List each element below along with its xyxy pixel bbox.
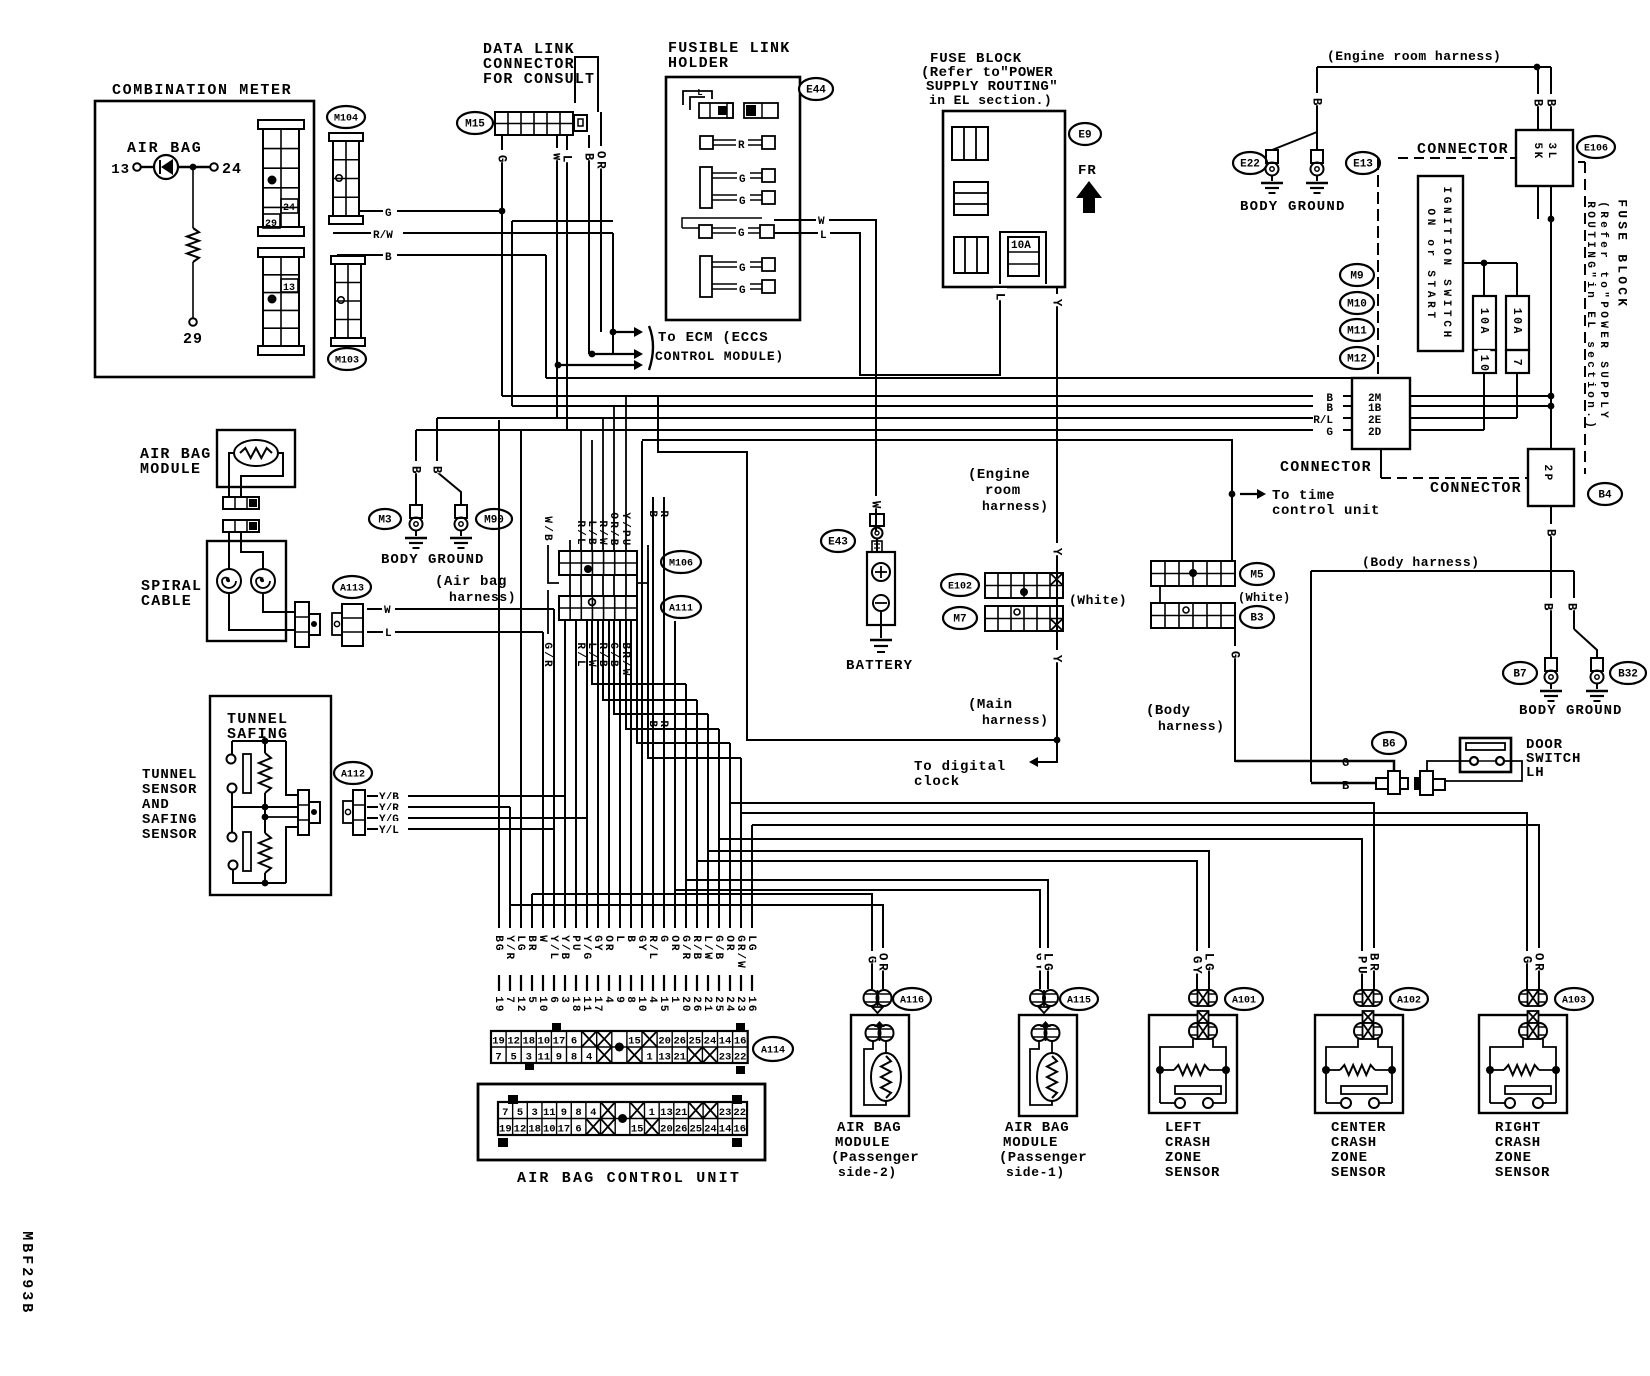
- svg-text:B: B: [1544, 529, 1558, 537]
- svg-text:B6: B6: [1382, 739, 1395, 751]
- svg-text:R/L: R/L: [1313, 415, 1333, 427]
- svg-text:A102: A102: [1397, 996, 1421, 1007]
- svg-text:B: B: [585, 538, 597, 545]
- svg-text:G: G: [1584, 261, 1596, 268]
- svg-text:BODY GROUND: BODY GROUND: [1519, 703, 1622, 719]
- svg-text:1: 1: [1477, 308, 1490, 315]
- connector A112: [334, 762, 372, 784]
- svg-text:T: T: [1424, 281, 1436, 288]
- svg-text:R: R: [1532, 963, 1546, 971]
- body ground M3: [369, 509, 401, 529]
- svg-text:O: O: [602, 935, 614, 942]
- svg-text:(Engine room harness): (Engine room harness): [1327, 49, 1501, 64]
- svg-text:S: S: [1440, 279, 1452, 286]
- svg-text:″: ″: [1597, 291, 1609, 298]
- svg-text:G: G: [591, 935, 603, 942]
- battery feed W: [869, 496, 883, 508]
- svg-text:9: 9: [613, 996, 625, 1003]
- svg-text:R: R: [594, 161, 608, 169]
- svg-text:G: G: [734, 935, 746, 942]
- svg-text:B: B: [1565, 603, 1579, 611]
- svg-text:(Passenger: (Passenger: [831, 1150, 919, 1166]
- wire bundle verticals: [498, 420, 500, 928]
- svg-text:1: 1: [580, 996, 592, 1003]
- svg-text:W: W: [1440, 289, 1452, 296]
- svg-text:L: L: [820, 230, 827, 242]
- wire B below M15: [588, 135, 590, 354]
- svg-text:SENSOR: SENSOR: [142, 827, 197, 843]
- svg-text:1: 1: [646, 1052, 652, 1064]
- wire L from fusible link to fuse block: [774, 233, 1000, 375]
- wire G row to A116: [532, 894, 872, 989]
- connector A114: [491, 1031, 748, 1063]
- svg-text:3: 3: [734, 1005, 746, 1012]
- wires below E106: [1537, 186, 1539, 219]
- svg-text:2D: 2D: [1368, 427, 1382, 439]
- svg-text:FOR CONSULT: FOR CONSULT: [483, 71, 595, 88]
- svg-text:O: O: [1615, 276, 1630, 284]
- svg-text:(Body harness): (Body harness): [1362, 555, 1480, 570]
- svg-text:18: 18: [528, 1124, 541, 1136]
- svg-text:I: I: [1440, 217, 1452, 224]
- svg-text:4: 4: [602, 996, 614, 1003]
- svg-text:R: R: [738, 140, 745, 152]
- svg-text:T: T: [1424, 311, 1436, 318]
- wire L below M15: [566, 135, 568, 430]
- wires Y/B Y/R Y/G Y/L from A112: [367, 795, 565, 797]
- svg-text:O: O: [1584, 211, 1596, 218]
- svg-text:12: 12: [507, 1036, 520, 1048]
- svg-text:P: P: [1597, 391, 1609, 398]
- svg-text:B7: B7: [1513, 669, 1526, 681]
- svg-text:I: I: [1584, 241, 1596, 248]
- svg-text:f: f: [1597, 231, 1609, 238]
- svg-text:B: B: [18, 1243, 35, 1252]
- svg-text:G: G: [1041, 963, 1055, 971]
- svg-text:P: P: [1355, 956, 1369, 964]
- tunnel sensor internals lower: [231, 807, 233, 832]
- svg-text:18: 18: [522, 1036, 535, 1048]
- svg-text:harness): harness): [982, 713, 1048, 728]
- svg-text:G: G: [1440, 197, 1452, 204]
- dashed link to 2P connector: [1381, 477, 1528, 479]
- svg-text:7: 7: [1510, 359, 1523, 366]
- svg-text:CONNECTOR: CONNECTOR: [1430, 480, 1522, 497]
- wire PU row to A102: [719, 839, 1362, 989]
- svg-text:RIGHT: RIGHT: [1495, 1120, 1541, 1136]
- svg-text:29: 29: [183, 331, 203, 348]
- svg-text:c: c: [1584, 361, 1596, 368]
- svg-text:R/W: R/W: [373, 230, 393, 242]
- door switch: [1460, 738, 1511, 772]
- svg-text:L: L: [1041, 953, 1055, 961]
- svg-text:13: 13: [660, 1107, 673, 1119]
- bracket above M15: [575, 57, 598, 112]
- svg-text:G: G: [712, 935, 724, 942]
- long wire y440 to time control / M5: [642, 440, 1232, 561]
- svg-text:room: room: [985, 483, 1021, 499]
- svg-text:E: E: [1597, 331, 1609, 338]
- svg-text:AND: AND: [142, 797, 170, 813]
- svg-text:Y/L: Y/L: [379, 825, 399, 837]
- svg-text:F: F: [18, 1255, 35, 1264]
- wire OR row to A116: [510, 905, 883, 989]
- svg-text:25: 25: [689, 1124, 702, 1136]
- svg-text:L: L: [993, 293, 1007, 301]
- svg-text:24: 24: [222, 161, 242, 178]
- svg-text:C: C: [1440, 320, 1452, 327]
- svg-text:(White): (White): [1069, 593, 1127, 608]
- svg-text:W: W: [701, 952, 713, 959]
- svg-text:16: 16: [734, 1036, 747, 1048]
- svg-text:r: r: [1424, 250, 1436, 257]
- svg-text:L: L: [1545, 152, 1557, 159]
- svg-text:E22: E22: [1240, 159, 1260, 171]
- svg-text:t: t: [1597, 271, 1609, 278]
- svg-text:o: o: [1584, 391, 1596, 398]
- svg-text:HOLDER: HOLDER: [668, 55, 729, 72]
- wire OR below M15: [600, 112, 602, 332]
- svg-text:harness): harness): [982, 499, 1048, 514]
- svg-text:G: G: [635, 935, 647, 942]
- svg-text:R: R: [876, 963, 890, 971]
- svg-text:/: /: [585, 529, 597, 536]
- svg-text:G: G: [739, 263, 746, 275]
- svg-text:W: W: [536, 935, 548, 942]
- svg-text:M11: M11: [1347, 326, 1367, 338]
- svg-text:CRASH: CRASH: [1165, 1135, 1211, 1151]
- connector M5: [1151, 561, 1235, 586]
- svg-text:1: 1: [668, 996, 680, 1003]
- bundle pin dashes: [498, 975, 500, 991]
- svg-text:15: 15: [631, 1124, 644, 1136]
- svg-text:BODY GROUND: BODY GROUND: [381, 552, 484, 568]
- svg-text:3: 3: [558, 996, 570, 1003]
- svg-text:L: L: [514, 935, 526, 942]
- staircase feeder wires to bundle: [592, 621, 686, 684]
- svg-text:O: O: [876, 953, 890, 961]
- svg-text:G: G: [1326, 427, 1333, 439]
- svg-text:5: 5: [525, 996, 537, 1003]
- svg-text:clock: clock: [914, 774, 960, 790]
- svg-text:15: 15: [628, 1036, 641, 1048]
- meter connector grid upper (pins 24/29): [258, 120, 304, 129]
- svg-text:Y: Y: [619, 512, 631, 519]
- air bag module squib: [234, 440, 278, 466]
- svg-text:L: L: [385, 628, 392, 640]
- svg-text:SAFING: SAFING: [142, 812, 197, 828]
- svg-text:/: /: [690, 944, 702, 951]
- svg-text:R: R: [574, 520, 586, 527]
- connector B3: [1151, 603, 1235, 628]
- connector E106: [1516, 130, 1573, 186]
- svg-text:M90: M90: [484, 515, 504, 527]
- center crash zone sensor A102 wires: [1355, 951, 1369, 974]
- svg-text:side-1): side-1): [1006, 1165, 1065, 1180]
- svg-text:A112: A112: [341, 770, 365, 781]
- pins above M106: [569, 540, 571, 551]
- svg-text:14: 14: [719, 1036, 732, 1048]
- svg-text:2: 2: [723, 996, 735, 1003]
- svg-text:P: P: [619, 530, 631, 537]
- svg-text:U: U: [1615, 210, 1630, 218]
- svg-text:L: L: [585, 520, 597, 527]
- svg-text:8: 8: [624, 996, 636, 1003]
- pin 24: [178, 166, 210, 168]
- connector M103: [331, 256, 365, 264]
- svg-text:A116: A116: [900, 996, 924, 1007]
- svg-text:side-2): side-2): [838, 1165, 897, 1180]
- svg-text:B: B: [1615, 254, 1630, 262]
- wire G from combination meter: [359, 210, 502, 212]
- svg-text:21: 21: [673, 1052, 686, 1064]
- svg-text:N: N: [1584, 251, 1596, 258]
- spiral cable connector: [295, 602, 309, 647]
- svg-text:11: 11: [538, 1052, 551, 1064]
- wire B to door switch connector: [1311, 782, 1376, 785]
- svg-text:.: .: [1584, 411, 1596, 418]
- A111 pin labels: [542, 638, 554, 666]
- svg-text:L: L: [613, 935, 625, 942]
- svg-text:harness): harness): [1158, 719, 1224, 734]
- svg-text:To ECM (ECCS: To ECM (ECCS: [658, 330, 768, 346]
- svg-text:S: S: [1424, 270, 1436, 277]
- svg-text:/: /: [607, 530, 619, 537]
- svg-text:1: 1: [1510, 308, 1523, 315]
- svg-text:L: L: [560, 155, 574, 163]
- combination meter box: [95, 101, 314, 377]
- svg-text:R: R: [596, 520, 608, 527]
- svg-text:CABLE: CABLE: [141, 593, 192, 610]
- svg-text:(Engine: (Engine: [968, 467, 1030, 483]
- svg-text:CONTROL MODULE): CONTROL MODULE): [655, 349, 784, 364]
- fuse block right dashed boundary: [1578, 161, 1585, 163]
- svg-text:29: 29: [265, 219, 277, 230]
- svg-text:22: 22: [734, 1052, 747, 1064]
- svg-text:SENSOR: SENSOR: [142, 782, 197, 798]
- svg-text:G: G: [385, 208, 392, 220]
- svg-text:E102: E102: [948, 582, 972, 593]
- svg-text:0: 0: [1477, 317, 1490, 324]
- svg-text:O: O: [1424, 208, 1436, 215]
- svg-text:B32: B32: [1618, 669, 1638, 681]
- svg-text:5: 5: [657, 1005, 669, 1012]
- svg-text:M9: M9: [1350, 271, 1363, 283]
- svg-text:BATTERY: BATTERY: [846, 658, 913, 674]
- fuse block pin L: [999, 287, 1001, 310]
- svg-text:s: s: [1584, 341, 1596, 348]
- fusible link top-left L symbol: [683, 91, 712, 105]
- svg-text:/: /: [619, 521, 631, 528]
- svg-text:24: 24: [704, 1124, 717, 1136]
- svg-text:CONNECTOR: CONNECTOR: [1417, 141, 1509, 158]
- svg-text:13: 13: [283, 283, 295, 294]
- svg-text:1: 1: [1477, 355, 1490, 362]
- connector A111: [559, 596, 637, 620]
- svg-text:E: E: [1584, 311, 1596, 318]
- svg-text:(Passenger: (Passenger: [999, 1150, 1087, 1166]
- svg-text:E43: E43: [828, 537, 848, 549]
- tunnel sensor edge connector: [298, 790, 309, 835]
- svg-text:A114: A114: [761, 1046, 785, 1057]
- wire G below M15: [501, 135, 503, 396]
- svg-text:(Body: (Body: [1146, 703, 1191, 719]
- svg-text:/: /: [580, 944, 592, 951]
- svg-text:U: U: [1597, 371, 1609, 378]
- bus wire row 1: [546, 377, 1352, 379]
- svg-text:o: o: [1424, 239, 1436, 246]
- svg-text:6: 6: [575, 1124, 581, 1136]
- svg-text:SENSOR: SENSOR: [1495, 1165, 1550, 1181]
- svg-text:2: 2: [1541, 465, 1553, 472]
- harness bracket wire: [1317, 66, 1551, 68]
- svg-text:O: O: [668, 935, 680, 942]
- svg-text:L: L: [1584, 321, 1596, 328]
- svg-text:9: 9: [18, 1279, 35, 1288]
- svg-text:26: 26: [673, 1036, 686, 1048]
- svg-text:(White): (White): [1238, 591, 1291, 605]
- svg-text:Y: Y: [1597, 411, 1609, 418]
- svg-text:U: U: [1355, 966, 1369, 974]
- right crash zone sensor A103 wires: [1520, 951, 1534, 963]
- svg-text:M: M: [18, 1231, 35, 1240]
- svg-text:ZONE: ZONE: [1165, 1150, 1202, 1166]
- svg-text:G: G: [1190, 956, 1204, 964]
- fuse symbol 1: [952, 127, 988, 160]
- door switch wiring B6: [1372, 732, 1406, 754]
- svg-text:G: G: [1520, 956, 1534, 964]
- air bag harness connector M106: [559, 551, 637, 575]
- svg-text:O: O: [594, 151, 608, 159]
- svg-text:G: G: [739, 285, 746, 297]
- svg-text:U: U: [569, 944, 581, 951]
- svg-text:G: G: [739, 196, 746, 208]
- svg-text:L: L: [1202, 953, 1216, 961]
- svg-text:L: L: [646, 952, 658, 959]
- svg-text:Y: Y: [591, 944, 603, 951]
- bus wire row 4 R/L: [437, 417, 1352, 419]
- svg-text:T: T: [1584, 231, 1596, 238]
- wire BR row to A102: [730, 803, 1374, 989]
- svg-text:L: L: [1615, 265, 1630, 273]
- fuse symbol 2: [954, 182, 988, 215]
- svg-text:0: 0: [536, 1005, 548, 1012]
- svg-text:i: i: [1584, 281, 1596, 288]
- svg-text:R: R: [1424, 301, 1436, 308]
- svg-text:R: R: [525, 944, 537, 951]
- svg-text:AIR BAG CONTROL UNIT: AIR BAG CONTROL UNIT: [517, 1170, 741, 1187]
- svg-text:O: O: [1532, 953, 1546, 961]
- svg-text:10: 10: [538, 1036, 551, 1048]
- svg-text:2E: 2E: [1368, 415, 1382, 427]
- svg-text:i: i: [1584, 381, 1596, 388]
- wires B B to connector E106: [1537, 67, 1539, 130]
- svg-text:N: N: [1440, 259, 1452, 266]
- svg-text:in EL section.): in EL section.): [929, 93, 1052, 108]
- svg-text:G: G: [1342, 756, 1349, 770]
- svg-text:P: P: [1597, 301, 1609, 308]
- svg-text:): ): [1584, 421, 1596, 428]
- svg-text:L: L: [745, 935, 757, 942]
- svg-text:B: B: [1310, 98, 1324, 106]
- wire LG row to A101: [708, 851, 1209, 989]
- svg-text:N: N: [1440, 207, 1452, 214]
- svg-text:M7: M7: [953, 614, 966, 626]
- svg-text:10: 10: [543, 1124, 556, 1136]
- svg-text:E9: E9: [1078, 130, 1091, 142]
- wire W from A113: [367, 608, 554, 610]
- svg-text:E44: E44: [806, 85, 826, 97]
- svg-text:(Main: (Main: [968, 697, 1013, 713]
- air bag control unit box: [478, 1084, 765, 1160]
- svg-text:E13: E13: [1353, 159, 1373, 171]
- svg-text:B: B: [582, 153, 596, 161]
- svg-text:B: B: [385, 252, 392, 264]
- svg-text:L: L: [697, 88, 702, 98]
- svg-text:M5: M5: [1250, 570, 1264, 582]
- svg-text:R: R: [602, 944, 614, 951]
- svg-text:R: R: [1367, 963, 1381, 971]
- svg-text:26: 26: [675, 1124, 688, 1136]
- svg-text:R: R: [1597, 211, 1609, 218]
- svg-text:20: 20: [658, 1036, 671, 1048]
- svg-text:TUNNEL: TUNNEL: [142, 767, 197, 783]
- svg-text:L: L: [547, 952, 559, 959]
- wire GY row to A101: [697, 861, 1197, 989]
- svg-text:R: R: [690, 935, 702, 942]
- svg-text:R: R: [668, 944, 680, 951]
- svg-text:25: 25: [689, 1036, 702, 1048]
- fuse block pin Y wire down to digital clock junction: [1056, 287, 1058, 740]
- svg-text:MODULE: MODULE: [140, 461, 201, 478]
- air bag module passenger side-2 A116: [865, 951, 879, 963]
- ignition switch box: [1418, 176, 1463, 351]
- svg-text:G: G: [739, 174, 746, 186]
- svg-text:24: 24: [283, 203, 295, 214]
- 10A fuse in fuse block: [1000, 232, 1046, 284]
- fuse block box E9: [943, 111, 1065, 287]
- svg-text:/: /: [701, 944, 713, 951]
- svg-text:I: I: [1440, 238, 1452, 245]
- svg-text:R: R: [723, 944, 735, 951]
- svg-text:R: R: [503, 952, 515, 959]
- svg-text:To digital: To digital: [914, 759, 1006, 775]
- connector M104: [327, 106, 365, 128]
- svg-text:R: R: [679, 952, 691, 959]
- svg-text:6: 6: [547, 996, 559, 1003]
- svg-text:M103: M103: [335, 356, 359, 367]
- svg-text:B: B: [492, 935, 504, 942]
- door switch inline connector 2: [1420, 771, 1433, 795]
- wire OR row to A103: [752, 825, 1539, 989]
- ignition feed wire to fuses: [1463, 262, 1517, 264]
- svg-text:G: G: [492, 944, 504, 951]
- svg-text:17: 17: [553, 1036, 566, 1048]
- svg-text:S: S: [1615, 221, 1630, 229]
- bus rows right of connector: [1410, 395, 1551, 397]
- svg-text:B: B: [712, 952, 724, 959]
- svg-text:A: A: [1510, 327, 1523, 334]
- connector A113: [333, 576, 371, 598]
- wire G row to A103: [741, 813, 1527, 989]
- svg-text:E106: E106: [1584, 144, 1608, 155]
- wire B from combination meter: [337, 254, 546, 256]
- svg-text:2: 2: [679, 996, 691, 1003]
- svg-text:harness): harness): [449, 590, 516, 605]
- svg-text:5: 5: [510, 1052, 516, 1064]
- svg-text:3: 3: [526, 1052, 532, 1064]
- svg-text:1: 1: [745, 996, 757, 1003]
